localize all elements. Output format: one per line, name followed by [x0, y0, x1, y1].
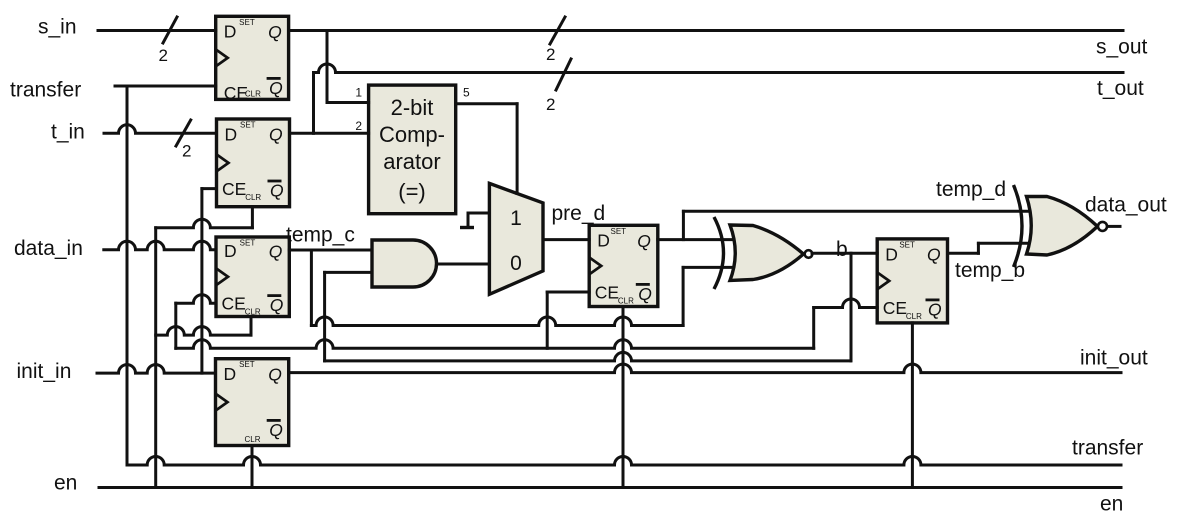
AND gate (temp_c & b): [372, 240, 436, 287]
svg-text:5: 5: [463, 86, 470, 100]
svg-text:CE: CE: [222, 179, 246, 199]
wire CE net up at FF6: [812, 308, 815, 349]
svg-text:D: D: [885, 244, 898, 264]
wire temp_c across (wire A): [311, 317, 683, 326]
wire FF6.CE: [814, 299, 878, 308]
svg-text:2: 2: [546, 45, 555, 64]
svg-text:CLR: CLR: [245, 193, 261, 202]
wire comparator pin 5 output: [456, 102, 517, 105]
wire CE net drop at FF5: [546, 292, 549, 348]
wire FF5.CE: [547, 291, 589, 294]
svg-text:en: en: [54, 472, 77, 495]
svg-text:Q: Q: [927, 245, 941, 265]
svg-text:2: 2: [546, 95, 555, 114]
svg-text:CE: CE: [595, 283, 619, 303]
svg-text:Q: Q: [269, 78, 283, 98]
bus slash 2 on s_out: [550, 17, 565, 44]
svg-text:D: D: [224, 22, 237, 42]
wire temp_c branch down: [310, 250, 313, 326]
wire FF3.CLR to clear net: [156, 327, 251, 336]
wire temp_d rail to XNOR2 upper input: [683, 210, 1029, 213]
svg-text:Q: Q: [270, 295, 284, 315]
D flip-flop FF4 (init register): [216, 359, 289, 446]
svg-text:2-bit: 2-bit: [391, 95, 434, 120]
svg-text:2: 2: [355, 119, 362, 133]
svg-text:Q: Q: [270, 180, 284, 200]
wire XNOR1 lower input: [683, 266, 733, 269]
svg-text:init_out: init_out: [1080, 347, 1148, 370]
wire FF2.CLR stub: [251, 207, 254, 228]
svg-text:2: 2: [182, 142, 191, 161]
wire clear net vertical: [154, 228, 157, 488]
svg-text:Q: Q: [638, 284, 652, 304]
wire FF5.CLR down to en: [622, 307, 625, 488]
wire XNOR1 output b to FF6.D: [812, 252, 877, 255]
wire FF5.Q branch up to temp_d rail: [682, 211, 685, 239]
wire transfer to FF1.CE: [115, 85, 216, 88]
wire FF5.Q to XNOR1 upper input: [658, 238, 733, 241]
svg-text:temp_c: temp_c: [286, 224, 355, 247]
wire FF2.CLR to clear net: [156, 219, 253, 228]
svg-text:Q: Q: [268, 22, 282, 42]
svg-text:(=): (=): [398, 179, 426, 204]
svg-text:pre_d: pre_d: [552, 202, 606, 225]
svg-text:b: b: [836, 238, 848, 261]
svg-text:SET: SET: [240, 239, 256, 248]
wire init_in to FF4.D: [97, 365, 216, 374]
ground symbol (constant on mux input 1): [460, 213, 474, 228]
wire FF6.Q temp_b: [948, 252, 979, 255]
wire FF6.CLR down to en: [911, 323, 914, 488]
XNOR gate U3 (temp_d xnor temp_b) -> data_out: [1014, 185, 1108, 267]
svg-text:CLR: CLR: [906, 312, 922, 321]
svg-text:Q: Q: [637, 231, 651, 251]
XNOR gate U2 (pre_d xnor temp_c) -> b: [714, 217, 812, 289]
svg-text:0: 0: [510, 252, 522, 275]
svg-text:temp_d: temp_d: [936, 178, 1006, 201]
wire temp_c up to XNOR1 lower input: [682, 267, 685, 325]
svg-text:data_out: data_out: [1085, 194, 1167, 217]
wire FF2.Q branch up to t_out rail: [312, 73, 315, 134]
D flip-flop FF2 (t register): [217, 119, 290, 207]
wire transfer bottom rail: [127, 457, 1121, 466]
wire FF2.CE down to init_in: [200, 189, 203, 374]
svg-text:t_in: t_in: [51, 121, 85, 144]
wire mux output pre_d to FF5.D: [543, 238, 589, 241]
svg-text:CLR: CLR: [245, 90, 261, 99]
wire t_out rail: [314, 64, 1124, 72]
svg-text:D: D: [224, 241, 237, 261]
svg-text:Q: Q: [269, 241, 283, 261]
wire FF3.CLR stub: [250, 317, 253, 336]
2-to-1 mux: [489, 183, 543, 294]
wire AND input 2 (b): [325, 271, 372, 274]
wire FF4.Q to init_out: [289, 364, 1121, 372]
svg-text:arator: arator: [383, 149, 440, 174]
2-bit comparator U1: [369, 85, 456, 214]
svg-text:s_in: s_in: [38, 16, 77, 39]
svg-text:D: D: [225, 124, 238, 144]
svg-text:Q: Q: [269, 420, 283, 440]
bus slash 2 on t_out: [556, 59, 571, 90]
svg-text:CE: CE: [883, 298, 907, 318]
wire FF3.CE down to CE net: [174, 303, 177, 348]
svg-text:1: 1: [355, 86, 362, 100]
svg-text:Comp-: Comp-: [379, 122, 445, 147]
svg-text:s_out: s_out: [1096, 36, 1148, 59]
svg-text:SET: SET: [240, 121, 256, 130]
svg-text:CE: CE: [222, 294, 246, 314]
svg-text:en: en: [1100, 493, 1123, 516]
wire s_in to FF1.D: [98, 29, 216, 32]
svg-text:D: D: [224, 364, 237, 384]
bus slash 2 on s_in: [163, 17, 177, 43]
wire data_out stub: [1108, 225, 1121, 228]
svg-text:data_in: data_in: [14, 237, 83, 260]
svg-text:SET: SET: [239, 360, 255, 369]
svg-text:SET: SET: [899, 240, 915, 249]
wire temp_b to XNOR2 lower input: [978, 242, 1029, 245]
wire temp_b step up: [977, 243, 980, 253]
svg-text:CLR: CLR: [245, 308, 261, 317]
svg-text:D: D: [597, 231, 610, 251]
wire AND output to mux 0 input: [437, 263, 490, 266]
svg-text:init_in: init_in: [17, 360, 72, 383]
wire b net across (wire C): [325, 352, 851, 361]
svg-text:temp_b: temp_b: [955, 259, 1025, 282]
wire FF1.Q to s_out rail: [289, 29, 1123, 32]
wire branch FF1.Q down to comparator pin1: [326, 31, 329, 103]
wire FF4.CLR down to en: [251, 446, 254, 488]
svg-text:Q: Q: [268, 364, 282, 384]
wire FF2.Q to comparator pin 2: [290, 132, 369, 135]
wire b junction down to wire C: [850, 253, 853, 361]
svg-text:SET: SET: [611, 227, 627, 236]
D flip-flop FF1 (s register): [216, 16, 289, 103]
svg-text:1: 1: [510, 207, 522, 230]
wire transfer vertical drop: [126, 86, 129, 465]
svg-text:Q: Q: [269, 125, 283, 145]
svg-text:SET: SET: [239, 18, 255, 27]
D flip-flop FF3 (data register, temp_c): [216, 237, 289, 317]
wire comparator output down to mux select: [516, 104, 519, 194]
D flip-flop FF5 (pre_d register): [589, 225, 658, 306]
svg-text:2: 2: [159, 46, 168, 65]
svg-text:Q: Q: [928, 299, 942, 319]
wire FF2.CE: [202, 187, 217, 190]
svg-text:CLR: CLR: [245, 435, 261, 444]
svg-text:CLR: CLR: [618, 297, 634, 306]
wire comparator pin 1: [327, 101, 369, 104]
wire t_in to FF2.D: [104, 125, 217, 134]
wire CE net (wire B): [176, 340, 814, 349]
wire FF3.Q temp_c to AND input 1: [289, 249, 372, 252]
D flip-flop FF6 (b register, temp_b): [877, 239, 947, 323]
svg-text:t_out: t_out: [1097, 77, 1144, 100]
bus slash 2 on t_in: [176, 120, 191, 146]
svg-text:transfer: transfer: [1072, 437, 1143, 460]
wire en rail: [99, 486, 1121, 489]
svg-text:transfer: transfer: [10, 79, 81, 102]
wire b net vertical at AND: [323, 272, 326, 361]
wire ground to mux 1 input: [468, 212, 489, 215]
wire data_in to FF3.D: [104, 241, 216, 250]
wire FF3.CE: [176, 295, 216, 304]
